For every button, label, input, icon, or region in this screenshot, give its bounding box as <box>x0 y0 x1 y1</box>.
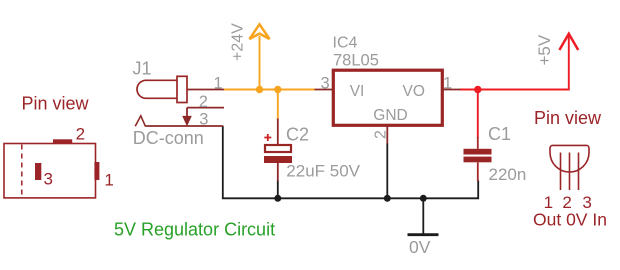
junction dot (black) ground <box>420 195 427 202</box>
svg-text:+24V: +24V <box>230 23 247 61</box>
capacitor C1 top plate <box>464 149 492 155</box>
svg-text:2: 2 <box>199 93 208 111</box>
pin view left: dashed line <box>21 145 23 198</box>
wire: C2 bottom black part <box>277 180 279 198</box>
svg-text:Pin view: Pin view <box>22 93 90 113</box>
pin view right: pin line 2 <box>569 153 571 191</box>
power symbol +24V arrow <box>250 24 270 39</box>
wire: orange +24V net horizontal <box>224 89 315 91</box>
svg-text:C2: C2 <box>286 124 309 144</box>
pin view left: connector body <box>4 144 96 198</box>
capacitor C1 pin stub bottom <box>477 162 479 181</box>
junction dot (red) at C1 <box>474 86 481 93</box>
svg-text:IC4: IC4 <box>333 34 358 51</box>
svg-text:3: 3 <box>199 110 208 128</box>
power symbol +5V arrow <box>559 34 578 50</box>
pin view left: pin 3 bar <box>35 163 41 180</box>
capacitor C1 pin stub top <box>477 137 479 149</box>
pin view right: pin line 3 <box>578 153 580 191</box>
wire: orange riser to +24V arrow <box>259 36 261 90</box>
svg-text:DC-conn: DC-conn <box>133 128 204 148</box>
capacitor C2 polarity + <box>264 134 271 141</box>
svg-text:Pin view: Pin view <box>534 108 602 128</box>
ground symbol 0V stem <box>422 198 424 234</box>
IC pin 2 stub (GND) <box>386 125 388 143</box>
svg-text:3: 3 <box>44 170 53 189</box>
connector J1 barrel body <box>137 80 177 98</box>
capacitor C2 top plate <box>265 145 291 152</box>
svg-text:J1: J1 <box>133 59 152 79</box>
svg-text:GND: GND <box>373 107 407 124</box>
svg-text:1: 1 <box>214 74 223 92</box>
svg-text:220n: 220n <box>489 165 527 184</box>
junction dot (orange) at C2 drop <box>274 86 281 93</box>
junction dot (orange) at riser <box>256 86 263 93</box>
svg-text:78L05: 78L05 <box>333 51 379 69</box>
svg-text:2: 2 <box>373 130 390 139</box>
connector J1 pin 1 stub <box>187 89 224 91</box>
connector J1 pin 3 line <box>145 125 223 127</box>
wire: bottom 0V rail <box>223 126 478 199</box>
connector J1 contact arrow <box>183 116 191 125</box>
svg-text:3: 3 <box>321 75 330 93</box>
svg-text:0V: 0V <box>409 237 431 257</box>
svg-text:VI: VI <box>350 83 365 100</box>
wire: red drop to C1 <box>477 90 479 139</box>
pin view left: pin 1 tab <box>94 162 99 180</box>
connector J1 sleeve caret <box>135 116 145 127</box>
svg-text:VO: VO <box>403 83 425 100</box>
IC pin 1 stub (output) <box>442 89 460 91</box>
svg-text:C1: C1 <box>488 124 511 144</box>
wire: orange drop to C2 <box>277 90 279 120</box>
svg-text:5V Regulator Circuit: 5V Regulator Circuit <box>114 220 275 240</box>
capacitor C1 bottom plate <box>464 157 492 163</box>
IC4 78L05 regulator box U1 <box>333 70 442 125</box>
IC pin 3 stub (input) <box>315 89 334 91</box>
wire: IC GND drop (black part) <box>386 143 388 198</box>
junction dot (black) C2 <box>274 195 281 202</box>
svg-text:22uF 50V: 22uF 50V <box>286 161 360 180</box>
capacitor C2 bottom plate <box>264 156 292 163</box>
connector J1 collar <box>177 76 187 102</box>
svg-text:+5V: +5V <box>535 34 554 65</box>
junction dot (black) IC GND <box>384 195 391 202</box>
svg-text:Out 0V In: Out 0V In <box>533 209 607 229</box>
svg-text:1: 1 <box>104 171 113 190</box>
capacitor C2 pin stub top <box>277 119 279 145</box>
ground symbol 0V bar <box>408 233 439 236</box>
svg-text:1: 1 <box>443 75 452 93</box>
pin view right: pin line 1 <box>560 153 562 191</box>
pin view right: plug body <box>550 145 589 172</box>
pin view left: pin 2 tab <box>53 139 72 143</box>
capacitor C2 pin stub bottom <box>277 163 279 181</box>
wire: +5V net bright red <box>460 36 569 90</box>
connector J1 pin 2 stub <box>187 107 224 109</box>
connector J1 switch arm drop <box>186 108 188 117</box>
svg-text:2: 2 <box>76 124 85 143</box>
